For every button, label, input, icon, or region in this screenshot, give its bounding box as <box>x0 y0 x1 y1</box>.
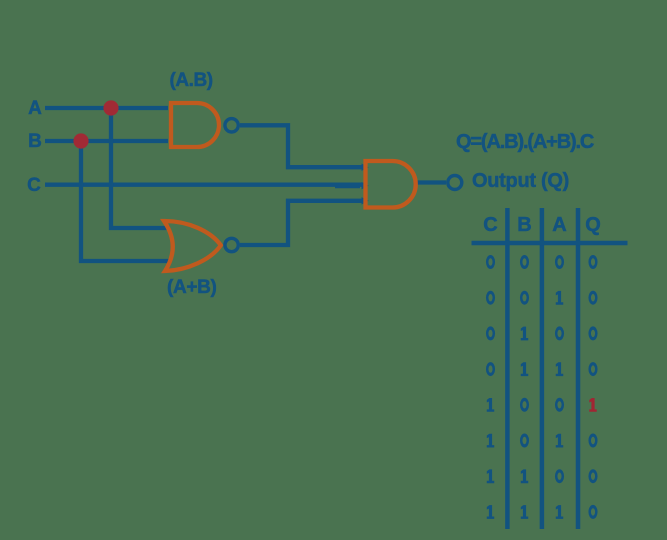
svg-text:C: C <box>483 214 497 236</box>
svg-text:A: A <box>552 214 566 236</box>
svg-text:Q=(A.B).(A+B).C: Q=(A.B).(A+B).C <box>456 131 594 153</box>
svg-text:Output (Q): Output (Q) <box>472 170 569 192</box>
svg-text:B: B <box>28 131 42 152</box>
svg-text:(A+B): (A+B) <box>167 277 216 298</box>
svg-text:(A.B): (A.B) <box>170 70 213 91</box>
svg-text:Q: Q <box>585 214 601 236</box>
svg-text:B: B <box>517 214 531 236</box>
svg-text:A: A <box>28 98 42 119</box>
svg-text:C: C <box>27 175 41 196</box>
